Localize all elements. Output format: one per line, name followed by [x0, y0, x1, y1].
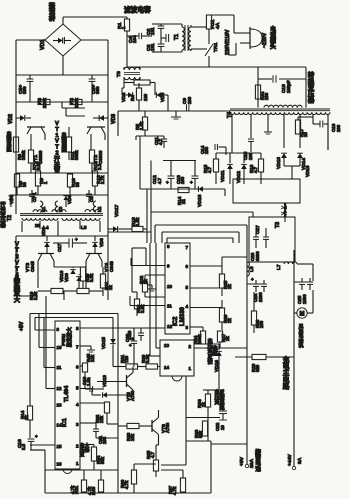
svg-text:TL494: TL494 [64, 385, 70, 402]
svg-text:L7: L7 [276, 264, 282, 270]
svg-text:A733: A733 [165, 422, 170, 433]
svg-text:T1: T1 [174, 34, 180, 40]
svg-text:12k: 12k [99, 415, 104, 423]
svg-text:39: 39 [22, 182, 27, 187]
svg-text:开关变压器: 开关变压器 [0, 200, 6, 229]
svg-text:C8: C8 [89, 196, 94, 202]
svg-text:4.7: 4.7 [158, 138, 163, 145]
svg-text:3.3k: 3.3k [145, 354, 150, 363]
svg-text:22: 22 [181, 199, 186, 204]
svg-text:VD2: VD2 [8, 114, 14, 124]
svg-text:103: 103 [204, 146, 209, 154]
svg-text:VD9: VD9 [64, 273, 69, 282]
svg-text:131: 131 [150, 43, 155, 51]
svg-text:滤波电容: 滤波电容 [124, 5, 151, 14]
svg-text:VD13: VD13 [276, 157, 282, 169]
svg-text:131: 131 [150, 27, 155, 35]
svg-text:4.7k: 4.7k [87, 486, 92, 495]
svg-text:PWM: PWM [61, 334, 67, 346]
svg-text:5.5: 5.5 [21, 443, 26, 450]
svg-text:电源插头: 电源插头 [270, 25, 276, 50]
svg-text:102pF: 102pF [286, 80, 291, 93]
svg-text:C945: C945 [30, 261, 35, 272]
svg-text:4.7: 4.7 [157, 177, 162, 184]
svg-text:10: 10 [167, 284, 173, 289]
svg-text:100: 100 [264, 92, 269, 100]
svg-text:VD5: VD5 [160, 92, 166, 102]
svg-text:56k: 56k [198, 430, 203, 438]
svg-text:120: 120 [143, 93, 148, 101]
svg-text:4.7k: 4.7k [172, 486, 177, 495]
svg-text:20A: 20A [249, 458, 255, 468]
svg-text:330k: 330k [74, 150, 79, 160]
svg-text:13: 13 [57, 403, 63, 408]
svg-text:T3: T3 [116, 71, 122, 77]
svg-text:VD9: VD9 [41, 227, 46, 236]
svg-text:16: 16 [57, 462, 63, 467]
svg-text:13: 13 [164, 343, 170, 348]
svg-text:VD19: VD19 [305, 165, 310, 177]
svg-text:1k: 1k [24, 415, 29, 420]
svg-text:+: + [75, 237, 78, 242]
svg-text:大器: 大器 [84, 442, 90, 454]
svg-text:220k: 220k [74, 98, 79, 109]
svg-text:220V/110V: 220V/110V [225, 29, 231, 55]
svg-text:VD15: VD15 [101, 337, 107, 349]
svg-text:VD3: VD3 [111, 114, 117, 124]
svg-text:4.7: 4.7 [150, 451, 155, 458]
svg-text:10: 10 [220, 425, 225, 430]
svg-text:4.7: 4.7 [253, 166, 258, 173]
svg-text:4.7k: 4.7k [124, 480, 129, 489]
svg-text:1k: 1k [201, 402, 206, 407]
svg-text:1500: 1500 [302, 294, 307, 304]
svg-text:2.2: 2.2 [97, 163, 102, 170]
svg-text:1k: 1k [227, 318, 232, 323]
svg-text:接蓄电池: 接蓄电池 [255, 448, 261, 473]
svg-text:+5V: +5V [239, 456, 245, 466]
svg-text:C7 1: C7 1 [32, 192, 37, 202]
svg-text:39: 39 [75, 182, 80, 187]
svg-text:720: 720 [124, 355, 129, 363]
svg-text:L5: L5 [81, 225, 87, 231]
svg-text:56k: 56k [100, 456, 105, 464]
svg-text:103: 103 [336, 124, 341, 132]
svg-text:12: 12 [167, 324, 173, 329]
svg-text:10k: 10k [130, 433, 135, 441]
svg-text:220k: 220k [42, 98, 47, 109]
svg-text:VD17: VD17 [114, 204, 120, 217]
svg-text:VD13: VD13 [102, 375, 108, 387]
svg-text:15: 15 [303, 132, 308, 137]
svg-text:330: 330 [95, 86, 100, 94]
svg-text:+: + [251, 277, 254, 282]
svg-text:IC1: IC1 [62, 418, 68, 427]
svg-text:启动电阻: 启动电阻 [6, 131, 11, 153]
svg-text:14: 14 [164, 365, 170, 370]
svg-text:VD11: VD11 [220, 170, 226, 182]
svg-text:1k: 1k [108, 285, 113, 290]
svg-text:+: + [129, 343, 132, 348]
svg-text:T2: T2 [7, 215, 13, 221]
svg-text:1.5k: 1.5k [135, 217, 140, 226]
svg-text:T3: T3 [275, 222, 281, 228]
svg-text:11: 11 [167, 304, 172, 309]
svg-text:L3: L3 [58, 206, 63, 212]
svg-text:C28: C28 [127, 330, 132, 339]
svg-text:TR1: TR1 [213, 42, 219, 52]
svg-text:VD1: VD1 [40, 40, 46, 51]
svg-text:转换变压器: 转换变压器 [307, 70, 315, 104]
svg-text:4.7: 4.7 [207, 166, 212, 173]
svg-text:820: 820 [255, 364, 260, 372]
svg-text:12: 12 [57, 386, 63, 391]
svg-text:3.9k: 3.9k [89, 273, 94, 282]
svg-text:100k: 100k [197, 334, 202, 344]
svg-text:2.7k: 2.7k [100, 175, 105, 184]
svg-text:+: + [190, 180, 193, 185]
svg-text:IC2: IC2 [173, 316, 179, 326]
svg-text:100: 100 [259, 320, 264, 328]
svg-text:VD18: VD18 [197, 194, 203, 207]
svg-text:L5: L5 [249, 266, 255, 272]
svg-text:12k: 12k [90, 354, 95, 362]
svg-text:整流桥: 整流桥 [48, 2, 56, 22]
svg-text:100: 100 [187, 96, 192, 104]
svg-text:LM339: LM339 [180, 307, 186, 326]
svg-text:启动电阻: 启动电阻 [62, 132, 67, 154]
svg-text:风扇电动机: 风扇电动机 [299, 323, 304, 349]
svg-text:充电主电路: 充电主电路 [283, 355, 290, 390]
svg-text:反馈电阻: 反馈电阻 [219, 389, 224, 411]
svg-text:330: 330 [22, 86, 27, 94]
svg-text:2200: 2200 [258, 292, 263, 302]
svg-text:1k: 1k [225, 336, 230, 341]
svg-text:~220V: ~220V [262, 32, 268, 48]
svg-text:11: 11 [57, 365, 62, 370]
svg-text:4A: 4A [215, 22, 221, 29]
svg-text:C948: C948 [109, 261, 114, 272]
svg-text:330k: 330k [21, 150, 26, 160]
svg-text:8A: 8A [297, 457, 303, 464]
svg-text:+5V: +5V [19, 321, 25, 331]
svg-text:VD8: VD8 [99, 238, 104, 247]
svg-text:1k: 1k [227, 284, 232, 289]
svg-text:R4: R4 [130, 95, 135, 101]
svg-text:VD12: VD12 [236, 171, 242, 183]
svg-text:+: + [166, 180, 169, 185]
svg-text:+44V: +44V [287, 454, 293, 466]
svg-text:1.5k: 1.5k [139, 121, 144, 130]
svg-text:15: 15 [57, 444, 63, 449]
svg-text:1.8n: 1.8n [86, 377, 91, 386]
svg-text:C17: C17 [57, 243, 62, 252]
svg-text:+: + [35, 434, 38, 439]
svg-text:103: 103 [102, 436, 107, 444]
svg-text:100: 100 [180, 176, 185, 184]
svg-text:6800: 6800 [255, 251, 260, 261]
svg-text:脉宽放大: 脉宽放大 [66, 327, 73, 348]
svg-text:M: M [299, 312, 304, 318]
svg-text:4.7k: 4.7k [70, 485, 75, 494]
